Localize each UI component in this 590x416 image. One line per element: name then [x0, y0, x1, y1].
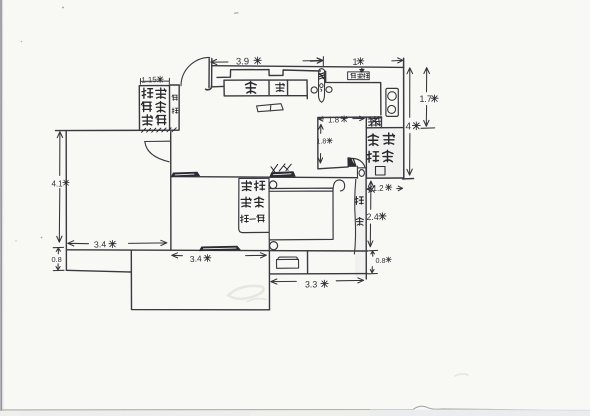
svg-text:1: 1	[353, 57, 358, 67]
svg-text:3.4: 3.4	[94, 239, 107, 249]
plant stand by sofa	[319, 69, 325, 103]
wardrobe room text column B	[156, 88, 166, 98]
dimension 3.4m center arrows	[172, 253, 267, 258]
svg-text:1.8: 1.8	[317, 139, 327, 146]
door: entry door swing arc	[181, 57, 210, 85]
stove unit right	[386, 88, 398, 116]
svg-text:1.7: 1.7	[420, 94, 432, 104]
wardrobe room box	[139, 85, 179, 130]
label sha (sofa char 1)	[246, 82, 257, 94]
svg-text:2.4: 2.4	[367, 212, 379, 222]
svg-text:4.1: 4.1	[52, 179, 64, 188]
dimension 0.8 left side	[53, 247, 64, 270]
dimension 1.15m ticks and line	[140, 78, 169, 84]
wall: room 1.8m square	[318, 117, 382, 169]
wall: bedroom/living divider horizontal	[171, 177, 358, 178]
dimension 0.8m right side	[368, 250, 378, 273]
closet hatch marks	[142, 128, 177, 133]
wall: far left wall vertical	[65, 131, 67, 270]
coffee table	[257, 104, 284, 112]
wire: entry wall foot hook	[206, 86, 212, 90]
node: light shaft box (tongfeng caiguang kou)	[366, 128, 403, 179]
wall: bedroom bottom long wall	[67, 250, 368, 251]
wire: pillar left wavy line	[354, 179, 355, 254]
wardrobe room text column A	[142, 88, 153, 98]
shaft text tongfeng	[368, 134, 378, 145]
meter box on top wall	[348, 72, 370, 80]
bookcase text row2 shu zhuo	[241, 197, 251, 207]
meter box tiny text	[351, 73, 356, 78]
narrow column small text	[172, 95, 178, 100]
wire: entry wall left vertical (double)	[209, 58, 212, 87]
dimension 1.7m right side	[421, 68, 435, 129]
bed outline	[269, 178, 333, 251]
wall: top-left room bottom wall going left	[56, 129, 180, 131]
dimension 3.9m arrows	[211, 57, 324, 66]
node: small closet box above shaft	[366, 117, 381, 128]
dimension 3.4m left arrows	[68, 240, 167, 246]
plant stand circles	[311, 87, 317, 93]
sofa outline	[224, 80, 307, 99]
svg-text:0.8: 0.8	[52, 255, 62, 264]
wall: long left vertical of living/bedroom column	[170, 132, 172, 251]
shelf object on left wall of bedroom corner	[172, 172, 200, 177]
bookcase text row1 shu gui	[242, 181, 252, 191]
wall: bottom-center room	[131, 251, 269, 310]
scribble marks above shelf	[271, 164, 291, 172]
wire: tick at right wall bottom	[403, 178, 414, 180]
label fa (sofa char 2)	[276, 83, 285, 92]
small sill box in bottom strip	[277, 257, 299, 268]
eraser smudge marks	[228, 286, 264, 299]
bedroom door filled leaf	[348, 158, 356, 166]
wire: top outer wall	[212, 66, 404, 68]
pillar text zhu zi	[355, 197, 364, 205]
svg-text:1.2: 1.2	[373, 184, 385, 193]
dimension 3.3m arrows	[271, 278, 364, 284]
wall: right outer wall	[403, 58, 405, 179]
wire: short ledge right of entry wall	[213, 85, 224, 87]
svg-text:3.9: 3.9	[236, 56, 249, 67]
bed pillow curl top right	[333, 180, 345, 191]
dimension 1.8m horizontal inside room	[319, 116, 365, 121]
shelf object above bed on divider wall	[270, 172, 296, 178]
svg-text:0.8: 0.8	[376, 256, 386, 265]
door: closet room door leaf and arc	[145, 141, 170, 162]
svg-text:3.4: 3.4	[190, 253, 203, 264]
wire: top inner wall with window steps	[217, 70, 320, 78]
shaft text caiguang	[367, 151, 379, 162]
dimension 1.8m vertical inside room	[318, 124, 323, 163]
bookcase desk bed unit box	[239, 178, 269, 232]
dark scribble in small closet box above shaft	[368, 117, 381, 127]
wire: inner wall right of stand, kitchen alcove top and right	[326, 71, 381, 115]
svg-text:4: 4	[406, 122, 412, 133]
bedroom door small box with zero	[357, 166, 366, 178]
dimension 4m right side	[407, 68, 413, 175]
wire: small step wall lower left	[66, 270, 131, 272]
dimension 1.2m arrows	[367, 186, 403, 191]
dimension 4.1m left side	[57, 132, 63, 243]
wall: bottom strip under bedroom	[270, 252, 368, 274]
plant stand inner marks	[319, 73, 324, 79]
wall: pillar right wall vertical	[365, 178, 367, 279]
svg-text:1.8: 1.8	[328, 115, 340, 124]
dimension 2.4m	[368, 181, 375, 247]
bookcase text row3 chuang yi ti	[240, 215, 248, 223]
paper specks	[62, 7, 64, 9]
dimension 1m arrows	[310, 58, 403, 63]
shaft text kou	[376, 167, 386, 176]
circles on bed left edge	[269, 181, 276, 189]
paper bottom edge	[0, 406, 590, 410]
svg-text:3.3: 3.3	[305, 279, 317, 289]
bedroom door swing arc	[353, 158, 365, 166]
svg-text:1.15: 1.15	[141, 75, 157, 85]
shelf object on bedroom bottom wall	[199, 246, 240, 251]
